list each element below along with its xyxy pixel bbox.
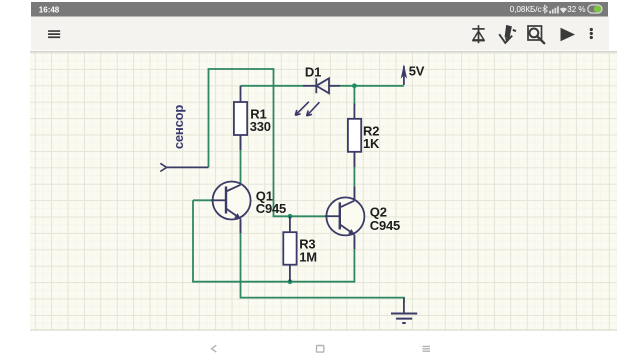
svg-text:5V: 5V bbox=[409, 64, 425, 79]
svg-text:32 %: 32 % bbox=[567, 5, 585, 14]
svg-text:16:48: 16:48 bbox=[39, 5, 60, 14]
svg-text:330: 330 bbox=[250, 119, 271, 134]
svg-text:0,08КБ/с: 0,08КБ/с bbox=[510, 5, 542, 14]
svg-text:сенсор: сенсор bbox=[171, 105, 186, 149]
svg-text:C945: C945 bbox=[256, 201, 286, 216]
svg-text:1M: 1M bbox=[299, 249, 317, 264]
svg-text:1K: 1K bbox=[363, 136, 380, 151]
svg-text:D1: D1 bbox=[305, 64, 321, 79]
svg-text:C945: C945 bbox=[370, 218, 400, 233]
